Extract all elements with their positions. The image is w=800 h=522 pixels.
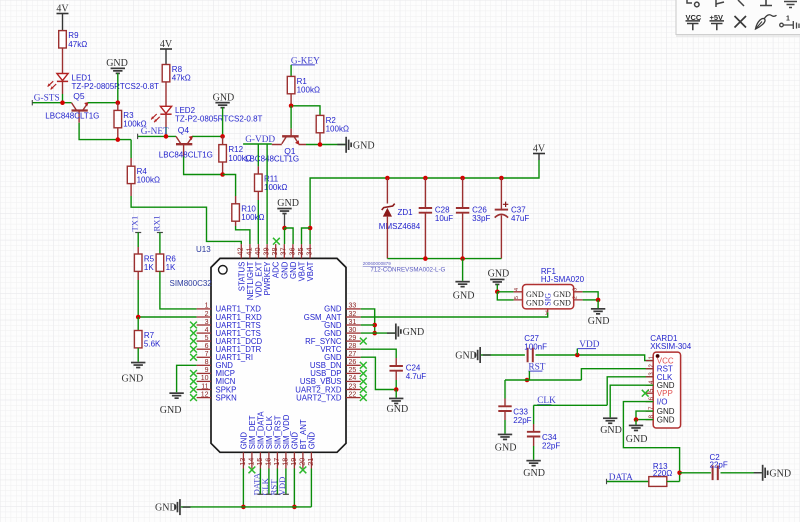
wire ground pin stub [387,332,395,334]
svg-text:2: 2 [205,311,209,318]
svg-text:GND: GND [106,58,128,69]
pin 42 STATUS (U13 top) [236,244,247,291]
capacitor C33 [498,406,531,425]
wire TX1 terminal tick [135,232,141,234]
wire pin21 to rail [310,469,312,507]
pin 40 VDD_EXT (U13 top) [253,244,264,297]
wire R3 top lead [117,103,119,111]
resistor R4 [127,166,160,184]
pin 5 UART1_DCD (U13 left) [197,335,263,346]
svg-text:9: 9 [205,367,209,374]
svg-text:1: 1 [205,303,209,310]
wire R4 top lead [130,158,132,166]
wire RF1 pin3 [583,292,599,300]
resistor R9 [59,31,87,49]
wire SIM_CLK [268,469,270,495]
wire Q1 emitter to ground [306,144,346,146]
junction C24/pin27 [394,387,399,392]
pin 16 SIM_CLK (U13 bottom) [263,415,274,468]
wire pin33 to gnd net [361,309,375,333]
ground below R7 [122,362,146,385]
toolbar icon VCC [686,13,702,31]
wire to pin 36 [285,228,294,244]
svg-text:I/O: I/O [657,398,668,407]
svg-text:4: 4 [514,288,520,291]
wire ground to C27 [481,354,525,356]
wire R2 bottom lead [319,133,321,145]
pin 25 USB_DP (U13 right) [310,367,360,378]
wire CARD1 I/O down [623,402,679,482]
junction VDD [575,353,580,358]
zener diode ZD1 MMSZ4684 [379,204,421,231]
wire C27 to CARD1 VCC [536,355,654,361]
svg-text:33pF: 33pF [472,214,490,223]
wire pin31 [361,324,375,326]
svg-text:LBC848CLT1G: LBC848CLT1G [159,150,213,159]
wire to pin 37 [284,228,286,244]
wire C34 to ground [533,446,535,460]
svg-text:C26: C26 [472,206,487,215]
ground above RF1 left [488,268,510,285]
svg-text:GND: GND [277,198,299,209]
node R3 bottom [116,137,121,142]
svg-text:SIM800C32: SIM800C32 [170,279,213,288]
wire LED2 cathode lead [165,114,167,127]
junction VBAT pins [308,226,313,231]
wire R5 top lead [137,247,139,254]
svg-text:GND: GND [403,327,425,338]
svg-text:1K: 1K [166,263,176,272]
pin 6 I/O (CARD1) [646,396,668,406]
pin 37 GND (U13 top) [279,244,290,279]
wire 4V to R9 [62,14,64,31]
wire R10 bottom lead [235,221,237,226]
pin 4 GND (CARD1) [646,380,675,390]
wire ground stem [284,213,286,228]
svg-text:4.7uF: 4.7uF [406,372,427,381]
wire R3 bottom lead [117,128,119,140]
wire RX1 terminal tick [157,232,163,234]
svg-text:Q5: Q5 [73,91,85,101]
text serial number [363,261,446,273]
svg-text:SPKN: SPKN [216,393,237,402]
wire Q5 emitter to R4 [79,123,131,140]
svg-text:ZD1: ZD1 [398,208,414,217]
wire SIM_DATA [259,469,261,495]
svg-text:HJ-SMA020: HJ-SMA020 [541,275,585,284]
svg-text:1: 1 [786,16,790,23]
svg-text:220Ω: 220Ω [653,469,672,478]
svg-text:3: 3 [205,319,209,326]
no-connect pin 29 [360,338,367,345]
wire R5 bottom lead [137,271,139,280]
svg-text:24: 24 [349,375,357,382]
svg-text:LBC848CLT1G: LBC848CLT1G [245,154,299,163]
pin 32 GSM_ANT (U13 right) [304,311,361,322]
wire R5 to pin2 node [137,280,139,317]
svg-text:6: 6 [205,343,209,350]
svg-text:GND: GND [353,140,375,151]
node R2 bottom [318,142,323,147]
wire C37 bottom lead [500,215,502,258]
transistor Q5 LBC848CLT1G [45,91,99,123]
pin 5 VPP (CARD1) [646,388,673,398]
wire C2 to ground [721,472,762,474]
wire C28 top lead [424,178,426,208]
pin 7 GND (CARD1) [646,406,675,416]
svg-text:GND: GND [526,298,544,307]
junction RST [525,378,530,383]
wire LED1 to G-STS node [62,94,64,103]
wire DATA terminal tick [257,493,263,495]
wire ground rail below caps [387,258,501,260]
capacitor C27 [524,334,547,363]
toolbar palette [676,0,800,37]
wire Q4 emitter to R12 bottom [184,156,223,174]
junction C26 bottom [460,256,465,261]
wire RST underline [528,370,542,372]
svg-text:12: 12 [201,391,209,398]
resistor R12 [219,145,252,163]
pin 34 VBAT (U13 top) [305,244,316,281]
wire RF1 pin5 [497,292,513,300]
svg-text:C24: C24 [406,364,421,373]
svg-text:5: 5 [205,335,209,342]
wire CLK horizontal [534,404,608,406]
ground bottom left [155,499,181,515]
svg-text:GND: GND [769,468,791,479]
no-connect pin 22 [360,394,367,401]
wire G-STS terminal tick [31,100,33,105]
pin 11 SPKP (U13 left) [197,383,237,394]
wire junction to ground [395,390,397,398]
LED LED1 [48,73,159,91]
wire LED2 to G-NET node [165,127,167,136]
junction RF1 right pins [596,298,601,303]
wire VDD tick [576,349,578,355]
wire ground to R12 top node [222,108,224,137]
junction CARD1 pin7/8 [634,417,639,422]
ground left of C27 [455,347,481,363]
svg-text:22pF: 22pF [710,460,728,469]
pin 27 GND (U13 right) [324,351,361,362]
power flag 4V (right) [533,144,546,155]
svg-text:GND: GND [455,351,477,362]
wire RST horizontal [505,379,581,381]
wire CARD1 pin4 to ground [610,385,653,417]
wire ground pin stub [337,144,345,146]
wire ZD1 cathode lead [386,178,388,204]
resistor R1 [287,76,320,94]
node R5/R7 [136,315,141,320]
pin 23 UART2_RXD (U13 right) [295,383,360,394]
pin 2 UART1_RXD (U13 left) [197,311,262,322]
svg-text:GND: GND [488,268,510,279]
wire VDD terminal tick [283,493,289,495]
resistor R7 [134,331,161,349]
wire RST tick [528,371,530,380]
svg-text:30: 30 [349,327,357,334]
pin 6 UART1_DTR (U13 left) [197,343,262,354]
svg-text:47uF: 47uF [511,214,529,223]
svg-text:RX1: RX1 [151,215,161,231]
pin 3 CLK (CARD1) [646,372,673,382]
svg-text:25: 25 [349,367,357,374]
wire node to R10 [223,175,236,197]
svg-text:100kΩ: 100kΩ [137,175,160,184]
junction R13/C2 [677,471,682,476]
wire R12 bottom lead [222,162,224,175]
svg-text:712-CONREVSMA002-L-G: 712-CONREVSMA002-L-G [370,267,445,274]
wire G-KEY to R1 [290,65,292,77]
wire C26 bottom lead [462,213,464,259]
wire G-STS to Q5 base [32,102,71,104]
pin 1 VCC (CARD1) [646,355,674,365]
pin 1 UART1_TXD (U13 left) [197,303,262,314]
svg-text:20060000879: 20060000879 [363,261,392,266]
toolbar icon gnd [760,0,772,6]
svg-text:GND: GND [213,93,235,104]
svg-text:GND: GND [307,432,316,450]
transistor Q4 LBC848CLT1G [159,125,213,159]
resistor R13 220 ohm [649,462,672,487]
ground below C24 [387,398,409,415]
pin 26 USB_DN (U13 right) [310,359,361,370]
wire C24 to junction [395,380,397,390]
svg-text:C37: C37 [511,206,526,215]
svg-text:Q4: Q4 [178,125,190,135]
svg-text:XKSIM-304: XKSIM-304 [650,342,691,351]
wire Q5 collector to R3 top [88,102,118,104]
wire C28 bottom lead [424,213,426,259]
wire C34 bottom lead [533,437,535,447]
wire RF1 pin2 [583,299,599,301]
svg-text:32: 32 [349,311,357,318]
resistor R5 [134,254,154,272]
svg-text:5: 5 [514,296,520,299]
pin 7 UART1_RI (U13 left) [197,351,253,362]
svg-text:100kΩ: 100kΩ [241,213,264,222]
svg-text:34: 34 [305,247,314,255]
svg-text:100kΩ: 100kΩ [326,125,349,134]
no-connect pin 25 [360,370,367,377]
ground right of pin30 [395,324,424,340]
no-connect pin 20 BT_ANT [300,467,307,474]
resistor R6 [156,254,176,272]
ground above R12 [213,93,235,109]
svg-text:GND: GND [155,503,177,514]
capacitor C26 [456,206,491,224]
capacitor C2 [710,453,728,480]
wire CARD1 pin8 [636,419,653,421]
wire ZD1 anode lead [386,217,388,259]
pin 18 SIM_VDD (U13 bottom) [280,414,291,468]
svg-text:GND: GND [122,374,144,385]
svg-text:GND: GND [588,316,610,327]
wire LED1 cathode lead [62,81,64,94]
wire RST to CARD1 [581,369,653,380]
svg-text:22pF: 22pF [513,416,531,425]
wire R11 bottom lead [257,191,259,200]
pin 38 ADC (U13 top) [270,244,281,278]
ground below C34 [523,460,545,479]
wire G-NET terminal tick [137,134,139,139]
svg-text:TX1: TX1 [130,216,140,232]
node R12 bottom [220,172,225,177]
pin 3 UART1_RTS (U13 left) [197,319,261,330]
wire G-VDD to PWRKEY pin [266,144,268,244]
wire CARD1 pin7 [636,411,653,420]
svg-text:SIG: SIG [544,293,553,306]
wire SIM_RST [276,469,278,495]
wire C33 top lead [504,399,506,407]
no-connect pin 9 [190,370,197,377]
wire ground to RF1 [496,284,498,292]
pin 41 NETLIGHT (U13 top) [244,244,255,300]
no-connect pin 24 [360,378,367,385]
toolbar icon +5V [710,13,725,31]
pin 36 GND (U13 top) [287,244,298,279]
svg-text:GND: GND [600,425,622,436]
svg-text:22: 22 [349,391,357,398]
svg-text:GND: GND [160,405,182,416]
svg-text:MMSZ4684: MMSZ4684 [379,222,421,231]
wire 4V to R8 [165,49,167,65]
power flag 4V (middle) [160,39,173,50]
wire RF1 pin4 [497,291,513,293]
wire down to R4 [130,140,132,158]
junction pin31 [372,323,377,328]
ground below C33 [495,434,517,454]
wire C24 bottom lead [395,371,397,380]
wire R8 to LED2 [165,82,167,106]
wire ground pin stub [483,354,491,356]
pin 10 MICN (U13 left) [197,375,236,386]
resistor R3 [114,110,147,128]
junction C37 top [499,176,504,181]
no-connect pin 4 [190,330,197,337]
wire C34 top lead [533,424,535,432]
svg-text:U13: U13 [196,245,211,254]
wire C37 top lead [500,178,502,210]
wire CLK to CARD1 [607,377,653,406]
junction pin19 rail [292,505,297,510]
wire DATA terminal tick [606,479,608,484]
wire SIM_VDD [285,469,287,495]
junction ZD1 top [385,176,390,181]
wire VDD underline [577,348,596,350]
junction C28 top [423,176,428,181]
junction pin13 rail [241,505,246,510]
wire to UART1_RXD pin [138,316,196,318]
svg-text:47kΩ: 47kΩ [68,40,87,49]
pin 19 GND (U13 bottom) [289,432,300,469]
svg-text:21: 21 [306,458,315,466]
svg-text:GND: GND [387,404,409,415]
svg-text:22pF: 22pF [542,441,560,450]
svg-text:31: 31 [349,319,357,326]
svg-text:3: 3 [572,288,578,291]
wire R6 to UART1_TXD pin [160,271,197,309]
wire C24 top lead [395,358,397,366]
svg-text:VBAT: VBAT [306,261,315,281]
node R12 top [220,134,225,139]
svg-text:33: 33 [349,303,357,310]
wire R9 to LED1 [62,48,64,74]
wire GSM_ANT to RF1 [361,312,548,317]
svg-text:TZ-P2-0805RTCS2-0.8T: TZ-P2-0805RTCS2-0.8T [175,115,263,124]
wire R11 to VDD_EXT pin [257,200,259,244]
pin 21 GND (U13 bottom) [306,432,317,469]
svg-text:1K: 1K [144,263,154,272]
junction LED1/G-STS [60,100,65,105]
junction RF1 left pins [495,290,500,295]
pin 9 MICP (U13 left) [197,367,235,378]
pin 30 GND (U13 right) [324,327,361,338]
svg-text:27: 27 [349,351,357,358]
svg-text:GND: GND [626,434,648,445]
wire R7 to ground [137,348,139,362]
pin 28 VRTC (U13 right) [320,343,360,354]
no-connect pin 7 [190,354,197,361]
ground right of Q1 [345,137,374,153]
svg-text:1: 1 [545,311,548,317]
svg-text:GND: GND [453,290,475,301]
wire R11 top lead [257,166,259,174]
wire junction to C2 [680,472,711,474]
svg-text:C28: C28 [435,206,450,215]
ground below capacitor rail [453,281,475,302]
svg-text:26: 26 [349,359,357,366]
LED LED2 [151,106,262,124]
svg-text:28: 28 [349,343,357,350]
pin 2 RST (CARD1) [646,364,673,374]
wire CLK to C34 [533,405,535,424]
svg-text:10uF: 10uF [435,214,453,223]
svg-text:GND: GND [495,442,517,453]
ground above pin 37 [277,198,299,214]
svg-text:TZ-P2-0805RTCS2-0.8T: TZ-P2-0805RTCS2-0.8T [72,82,160,91]
wire bottom ground rail [181,506,312,508]
ground below CARD1 pin7/8 [626,425,648,445]
pin 29 RF_SYNC (U13 right) [305,335,361,346]
svg-text:11: 11 [201,383,208,390]
IC U13 SIM800C32 body [170,245,347,452]
svg-text:GND: GND [553,298,571,307]
svg-text:47kΩ: 47kΩ [172,74,191,83]
wire R10 to NETLIGHT pin [236,226,250,244]
pin 12 SPKN (U13 left) [197,391,237,402]
pin 24 USB_VBUS (U13 right) [300,375,361,386]
wire R1 to R2 [291,106,320,116]
wire DATA to R13 [607,481,649,483]
SIM card connector CARD1 XKSIM-304 body [650,334,691,428]
pin 35 VBAT (U13 top) [296,244,307,281]
wire ground to R3 top node [117,73,119,103]
wire rail to ground [462,259,464,281]
no-connect pin 26 [360,362,367,369]
wire pin13 to rail [242,469,244,507]
wire R4 to STATUS pin [131,196,241,244]
svg-text:GND: GND [657,416,675,425]
svg-text:8: 8 [205,359,209,366]
wire to pin 35 [302,228,311,244]
wire G-VDD to R11 [257,144,259,166]
wire C33 bottom lead [504,411,506,420]
wire R12 top lead [222,136,224,144]
wire node to R7 [137,317,139,331]
svg-text:23: 23 [349,383,357,390]
